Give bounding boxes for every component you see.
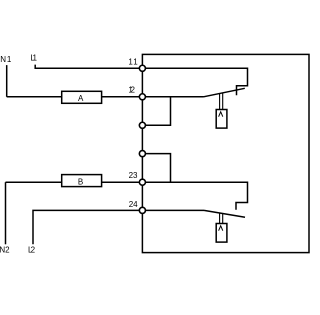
terminal 11	[139, 65, 145, 71]
wire coil B to terminal 23	[102, 181, 140, 183]
actuator A1 box	[216, 110, 227, 129]
terminal j3	[139, 122, 145, 128]
terminal 23	[139, 179, 145, 185]
wire terminal 12 to contact arm K1	[146, 96, 204, 98]
wire terminal 23 to fixed contact K2	[146, 182, 248, 210]
node j3 wire to terminal 12 wire	[146, 97, 171, 126]
wire terminal 24 to contact arm K2	[146, 209, 205, 211]
wire coil A to terminal 12	[102, 96, 140, 98]
wire N2 vertical	[5, 182, 7, 244]
svg-text:A: A	[78, 94, 84, 103]
svg-text:N1: N1	[0, 55, 12, 64]
coil A box	[62, 91, 102, 103]
actuator A2 chevron	[219, 226, 223, 231]
contact arm K1 (closed)	[204, 88, 245, 97]
svg-text:11: 11	[128, 58, 138, 67]
svg-text:24: 24	[129, 200, 138, 209]
coil B box	[62, 175, 102, 187]
svg-text:23: 23	[129, 171, 138, 180]
node j4 wire to terminal 23 wire	[146, 154, 171, 183]
wire N1 vertical	[6, 65, 8, 97]
actuator A2 box	[216, 224, 227, 243]
actuator A1 chevron	[219, 112, 223, 117]
terminal 12	[139, 94, 145, 100]
wire L1 to terminal 11	[35, 65, 139, 69]
wire N1 to coil A	[7, 96, 62, 98]
actuator link K2	[220, 213, 223, 223]
wire terminal 11 to fixed contact K1	[146, 68, 248, 95]
terminal 24	[139, 207, 145, 213]
svg-text:B: B	[78, 178, 83, 187]
svg-text:L2: L2	[28, 246, 36, 255]
svg-text:12: 12	[128, 86, 135, 95]
svg-text:N2: N2	[0, 246, 10, 255]
contact arm K2 (open)	[204, 210, 245, 217]
terminal j4	[139, 151, 145, 157]
wire N2 to coil B	[6, 181, 62, 183]
svg-text:L1: L1	[30, 54, 37, 63]
wire L2 to terminal 24	[33, 210, 139, 244]
actuator link K1	[220, 93, 223, 110]
device enclosure outline	[142, 54, 309, 252]
